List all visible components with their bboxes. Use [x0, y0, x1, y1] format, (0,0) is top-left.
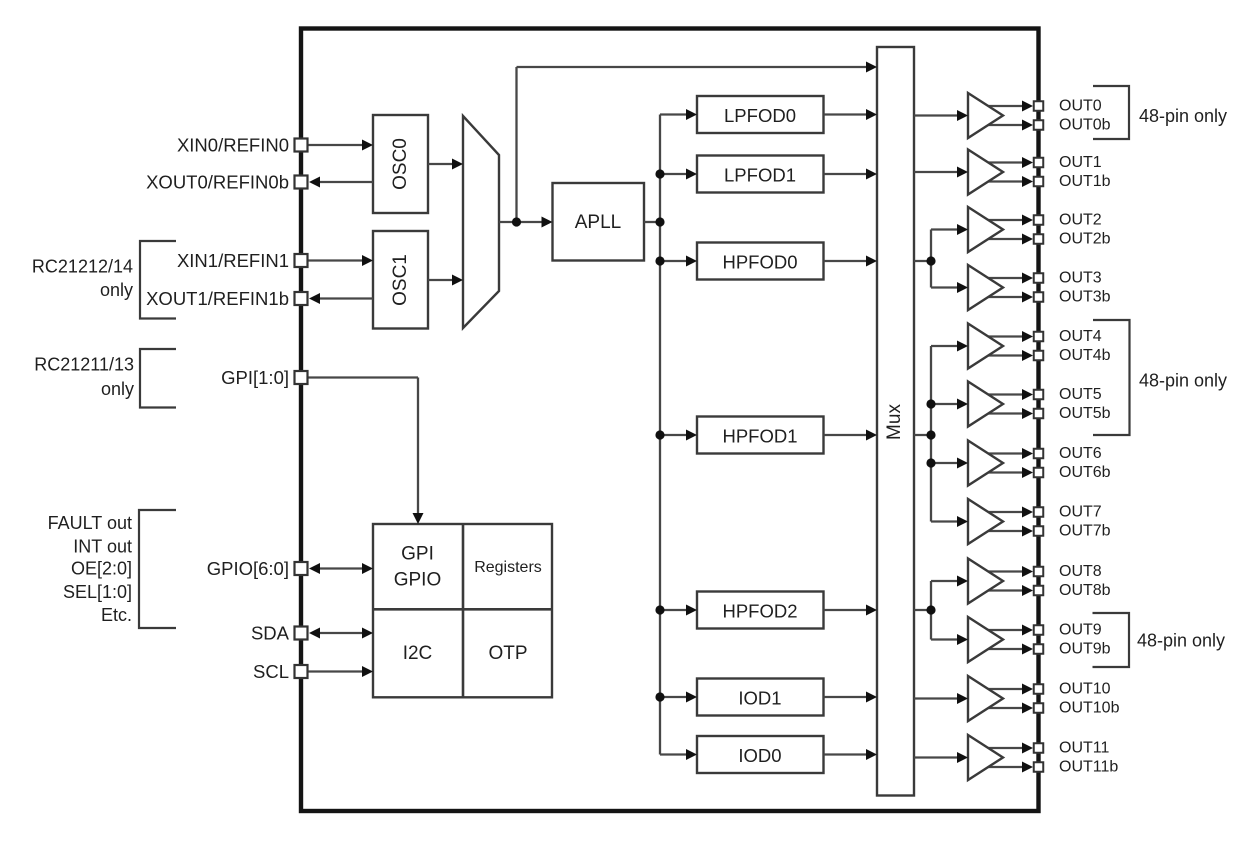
divider block HPFOD0: [697, 243, 824, 280]
svg-text:IOD1: IOD1: [738, 688, 781, 709]
output buffer U6 (OUT6): [968, 441, 1003, 486]
pin XOUT1/REFIN1b: [295, 292, 308, 305]
divider block LPFOD1: [697, 156, 824, 193]
wire branch vertical OUT4-OUT7: [930, 346, 932, 522]
junction bus-LPFOD1: [655, 169, 664, 178]
junction bus-IOD1: [655, 692, 664, 701]
output buffer U8 (OUT8): [968, 559, 1003, 604]
svg-text:OUT5: OUT5: [1059, 386, 1102, 403]
svg-text:XOUT1/REFIN1b: XOUT1/REFIN1b: [146, 288, 289, 309]
wire Mux out HPFOD2 branch: [914, 609, 931, 611]
oscillator OSC1: [373, 231, 428, 329]
wire buffer 8 to OUT8b pin: [985, 589, 1028, 591]
wire bus to LPFOD0: [660, 113, 692, 115]
svg-text:XOUT0/REFIN0b: XOUT0/REFIN0b: [146, 172, 289, 193]
svg-text:OUT11b: OUT11b: [1059, 759, 1118, 776]
arrow into LPFOD0: [686, 109, 697, 120]
arrow into buffer 1: [957, 167, 968, 178]
svg-text:GPIO[6:0]: GPIO[6:0]: [207, 558, 289, 579]
arrow into APLL: [542, 217, 553, 228]
arrow into buffer 9: [957, 634, 968, 645]
arrow OSC1 into trapezoid: [452, 275, 463, 286]
arrow into OUT5b pin: [1022, 408, 1033, 419]
wire bus to IOD0: [660, 753, 692, 755]
svg-text:OUT2b: OUT2b: [1059, 231, 1111, 248]
svg-text:SEL[1:0]: SEL[1:0]: [63, 582, 132, 602]
wire buffer 6 to OUT6 pin: [985, 452, 1028, 454]
svg-text:48-pin only: 48-pin only: [1139, 371, 1227, 391]
divider block HPFOD2: [697, 592, 824, 629]
arrow into OUT8b pin: [1022, 585, 1033, 596]
arrow into OUT7b pin: [1022, 526, 1033, 537]
pin OUT0b: [1034, 120, 1044, 130]
svg-text:OUT9b: OUT9b: [1059, 641, 1111, 658]
svg-text:OUT4: OUT4: [1059, 328, 1102, 345]
arrow into OUT9b pin: [1022, 644, 1033, 655]
arrow into OUT10 pin: [1022, 684, 1033, 695]
pin OUT1: [1034, 158, 1044, 168]
arrow into OSC0: [362, 140, 373, 151]
wire buffer 0 to OUT0 pin: [985, 105, 1028, 107]
oscillator OSC0: [373, 115, 428, 213]
bracket RC21212/14: [140, 241, 176, 319]
pin GPI[1:0]: [295, 371, 308, 384]
svg-text:I2C: I2C: [403, 643, 433, 664]
wire buffer 10 to OUT10 pin: [985, 688, 1028, 690]
svg-text:OUT9: OUT9: [1059, 622, 1102, 639]
arrow into IOD1: [686, 692, 697, 703]
svg-text:LPFOD0: LPFOD0: [724, 105, 796, 126]
svg-text:OSC0: OSC0: [390, 138, 411, 190]
arrow LPFOD1 into Mux: [866, 169, 877, 180]
wire buffer 11 to OUT11b pin: [985, 766, 1028, 768]
wire buffer 10 to OUT10b pin: [985, 707, 1028, 709]
wire HPFOD0 out to Mux: [824, 260, 869, 262]
arrow into OUT7 pin: [1022, 507, 1033, 518]
svg-text:XIN0/REFIN0: XIN0/REFIN0: [177, 135, 289, 156]
arrow into OUT2b pin: [1022, 234, 1033, 245]
wire XIN1 to OSC1: [308, 259, 367, 261]
pin GPIO[6:0]: [295, 562, 308, 575]
junction bus-APLL: [655, 217, 664, 226]
arrow into HPFOD2: [686, 605, 697, 616]
wire bus to IOD1: [660, 696, 692, 698]
wire LPFOD0 out to Mux: [824, 113, 869, 115]
svg-text:GPI: GPI: [401, 544, 434, 565]
wire buffer 9 to OUT9 pin: [985, 629, 1028, 631]
arrow bypass into Mux: [866, 62, 877, 73]
svg-text:OSC1: OSC1: [390, 254, 411, 306]
wire branch to OUT5 buffer: [931, 403, 963, 405]
wire Mux out row10: [914, 697, 963, 699]
arrow into OUT9 pin: [1022, 625, 1033, 636]
wire buffer 0 to OUT0b pin: [985, 124, 1028, 126]
pin OUT3: [1034, 273, 1044, 283]
wire branch to OUT6 buffer: [931, 462, 963, 464]
pin XIN1/REFIN1: [295, 254, 308, 267]
arrow into XOUT1 pin: [309, 293, 320, 304]
arrow IOD0 into Mux: [866, 749, 877, 760]
wire SDA bidirectional: [314, 632, 368, 634]
pin OUT2: [1034, 215, 1044, 225]
arrow into HPFOD0: [686, 256, 697, 267]
svg-text:OUT3b: OUT3b: [1059, 289, 1111, 306]
arrow into buffer 2: [957, 224, 968, 235]
arrow into HPFOD1: [686, 430, 697, 441]
wire OSC1 out to trapezoid: [428, 279, 458, 281]
wire buffer 4 to OUT4 pin: [985, 335, 1028, 337]
pin OUT9b: [1034, 644, 1044, 654]
wire branch vertical OUT8/OUT9: [930, 581, 932, 640]
svg-text:OE[2:0]: OE[2:0]: [71, 559, 132, 579]
output buffer U11 (OUT11): [968, 735, 1003, 780]
wire GPIO bidirectional: [314, 567, 368, 569]
wire XIN0 to OSC0: [308, 144, 367, 146]
junction bus-HPFOD0: [655, 256, 664, 265]
divider block IOD0: [697, 736, 824, 773]
divider block LPFOD0: [697, 96, 824, 133]
arrow into OUT11b pin: [1022, 762, 1033, 773]
wire buffer 5 to OUT5b pin: [985, 412, 1028, 414]
arrow into buffer 0: [957, 110, 968, 121]
svg-text:OUT7: OUT7: [1059, 504, 1102, 521]
svg-text:only: only: [101, 379, 134, 399]
svg-text:OUT2: OUT2: [1059, 212, 1102, 229]
svg-text:HPFOD0: HPFOD0: [722, 252, 797, 273]
svg-text:OUT1b: OUT1b: [1059, 173, 1111, 190]
svg-text:OTP: OTP: [488, 643, 527, 664]
wire bypass horizontal to Mux: [517, 66, 868, 68]
arrow GPIO into pin: [309, 563, 320, 574]
svg-text:48-pin only: 48-pin only: [1137, 631, 1225, 651]
junction bus-HPFOD2: [655, 605, 664, 614]
arrow into buffer 3: [957, 282, 968, 293]
wire IOD1 out to Mux: [824, 696, 869, 698]
svg-text:HPFOD1: HPFOD1: [722, 426, 797, 447]
svg-text:INT out: INT out: [73, 537, 132, 557]
svg-text:HPFOD2: HPFOD2: [722, 601, 797, 622]
wire OSC0 out to trapezoid: [428, 163, 458, 165]
arrow GPIO into block: [362, 563, 373, 574]
arrow into OUT8 pin: [1022, 566, 1033, 577]
arrow into OSC1: [362, 255, 373, 266]
wire bus to LPFOD1: [660, 173, 692, 175]
junction branch OUT4-7: [926, 430, 935, 439]
wire branch to OUT4 buffer: [931, 345, 963, 347]
svg-text:OUT7b: OUT7b: [1059, 523, 1111, 540]
arrow into OUT1 pin: [1022, 157, 1033, 168]
svg-text:OUT5b: OUT5b: [1059, 405, 1111, 422]
wire buffer 3 to OUT3b pin: [985, 296, 1028, 298]
wire bus to HPFOD2: [660, 609, 692, 611]
arrow into LPFOD1: [686, 169, 697, 180]
bracket FAULT/INT/OE/SEL: [139, 510, 176, 628]
wire branch to OUT8 buffer: [931, 580, 963, 582]
arrow HPFOD2 into Mux: [866, 605, 877, 616]
arrow into OUT6b pin: [1022, 467, 1033, 478]
pin SCL: [295, 665, 308, 678]
wire bypass vertical from node A: [515, 67, 517, 222]
wire HPFOD2 out to Mux: [824, 609, 869, 611]
pin OUT4: [1034, 332, 1044, 342]
svg-text:OUT0b: OUT0b: [1059, 117, 1111, 134]
svg-text:OUT10: OUT10: [1059, 681, 1111, 698]
wire branch to OUT7 buffer: [931, 520, 963, 522]
wire APLL out to bus: [644, 221, 660, 223]
wire Mux out row11: [914, 756, 963, 758]
svg-text:OUT8b: OUT8b: [1059, 582, 1111, 599]
bracket 48-pin OUT9: [1093, 613, 1130, 667]
arrow SDA into block: [362, 628, 373, 639]
wire GPI horizontal: [308, 376, 418, 378]
wire buffer 6 to OUT6b pin: [985, 471, 1028, 473]
junction branch OUT6: [926, 458, 935, 467]
arrow into OUT4b pin: [1022, 350, 1033, 361]
svg-text:OUT0: OUT0: [1059, 98, 1102, 115]
input mux trapezoid: [463, 116, 499, 328]
svg-text:SDA: SDA: [251, 623, 290, 644]
pin OUT1b: [1034, 177, 1044, 187]
svg-text:OUT10b: OUT10b: [1059, 700, 1120, 717]
wire buffer 2 to OUT2b pin: [985, 238, 1028, 240]
svg-text:OUT3: OUT3: [1059, 270, 1102, 287]
wire SCL to I2C: [308, 670, 367, 672]
wire clock bus vertical: [659, 115, 661, 755]
arrow HPFOD0 into Mux: [866, 256, 877, 267]
bracket 48-pin OUT4/5: [1093, 320, 1130, 435]
arrow into OUT10b pin: [1022, 703, 1033, 714]
junction bus-HPFOD1: [655, 430, 664, 439]
chip boundary (device outline): [301, 29, 1039, 812]
arrow into OUT5 pin: [1022, 389, 1033, 400]
pin XOUT0/REFIN0b: [295, 176, 308, 189]
junction branch OUT8/9: [926, 605, 935, 614]
svg-text:OUT6b: OUT6b: [1059, 464, 1111, 481]
bracket RC21211/13: [140, 349, 176, 408]
wire branch to OUT9 buffer: [931, 638, 963, 640]
arrow into OUT0 pin: [1022, 101, 1033, 112]
output buffer U7 (OUT7): [968, 499, 1003, 544]
arrow into OUT11 pin: [1022, 743, 1033, 754]
divider block IOD1: [697, 679, 824, 716]
wire buffer 4 to OUT4b pin: [985, 354, 1028, 356]
wire buffer 2 to OUT2 pin: [985, 219, 1028, 221]
arrow into OUT1b pin: [1022, 176, 1033, 187]
output buffer U0 (OUT0): [968, 93, 1003, 138]
wire Mux out HPFOD1 branch: [914, 434, 931, 436]
arrow into buffer 10: [957, 693, 968, 704]
pin OUT9: [1034, 625, 1044, 635]
svg-text:APLL: APLL: [575, 212, 621, 233]
wire branch vertical OUT2/OUT3: [930, 230, 932, 288]
wire Mux out HPFOD0 branch: [914, 260, 931, 262]
svg-text:OUT4b: OUT4b: [1059, 347, 1111, 364]
wire XOUT1 from OSC1: [315, 297, 373, 299]
wire buffer 5 to OUT5 pin: [985, 393, 1028, 395]
wire buffer 3 to OUT3 pin: [985, 277, 1028, 279]
pin XIN0/REFIN0: [295, 139, 308, 152]
bracket 48-pin OUT0: [1093, 86, 1129, 139]
arrow SDA into pin: [309, 628, 320, 639]
arrow into OUT0b pin: [1022, 120, 1033, 131]
arrow into buffer 7: [957, 516, 968, 527]
svg-text:OUT6: OUT6: [1059, 445, 1102, 462]
wire LPFOD1 out to Mux: [824, 173, 869, 175]
pin OUT5: [1034, 390, 1044, 400]
wire XOUT0 from OSC0: [315, 181, 373, 183]
wire buffer 1 to OUT1 pin: [985, 161, 1028, 163]
svg-text:SCL: SCL: [253, 661, 289, 682]
arrow IOD1 into Mux: [866, 692, 877, 703]
wire branch to OUT3 buffer: [931, 286, 963, 288]
svg-text:OUT1: OUT1: [1059, 154, 1102, 171]
wire IOD0 out to Mux: [824, 753, 869, 755]
output buffer U1 (OUT1): [968, 150, 1003, 195]
arrow into buffer 4: [957, 341, 968, 352]
pin OUT7: [1034, 507, 1044, 517]
wire HPFOD1 out to Mux: [824, 434, 869, 436]
pin OUT5b: [1034, 409, 1044, 419]
svg-text:GPI[1:0]: GPI[1:0]: [221, 367, 289, 388]
wire trapezoid out to APLL: [499, 221, 548, 223]
svg-text:Registers: Registers: [474, 559, 542, 576]
wire Mux out row1: [914, 171, 963, 173]
wire Mux out row0: [914, 114, 963, 116]
svg-text:OUT8: OUT8: [1059, 563, 1102, 580]
arrow into buffer 11: [957, 752, 968, 763]
arrow LPFOD0 into Mux: [866, 109, 877, 120]
arrow OSC0 into trapezoid: [452, 159, 463, 170]
output buffer U2 (OUT2): [968, 207, 1003, 252]
junction branch OUT5: [926, 399, 935, 408]
output mux block Mux: [877, 47, 914, 796]
arrow into buffer 5: [957, 399, 968, 410]
wire branch to OUT2 buffer: [931, 228, 963, 230]
arrow into IOD0: [686, 749, 697, 760]
arrow HPFOD1 into Mux: [866, 430, 877, 441]
control block grid (GPI/GPIO, Registers, I2C, OTP): [373, 524, 552, 697]
junction branch OUT2/3: [926, 256, 935, 265]
svg-text:Mux: Mux: [884, 404, 905, 440]
wire buffer 8 to OUT8 pin: [985, 570, 1028, 572]
arrow into OUT2 pin: [1022, 215, 1033, 226]
output buffer U9 (OUT9): [968, 617, 1003, 662]
node A junction (trapezoid output): [512, 217, 521, 226]
wire buffer 7 to OUT7b pin: [985, 530, 1028, 532]
arrow into buffer 6: [957, 458, 968, 469]
svg-text:FAULT out: FAULT out: [48, 513, 132, 533]
svg-text:only: only: [100, 280, 133, 300]
arrow into XOUT0 pin: [309, 177, 320, 188]
pin OUT8b: [1034, 586, 1044, 596]
wire GPI vertical to GPI/GPIO block: [417, 378, 419, 520]
svg-text:Etc.: Etc.: [101, 605, 132, 625]
arrow into OUT6 pin: [1022, 448, 1033, 459]
svg-text:XIN1/REFIN1: XIN1/REFIN1: [177, 250, 289, 271]
output buffer U3 (OUT3): [968, 265, 1003, 310]
svg-text:IOD0: IOD0: [738, 745, 781, 766]
arrow into OUT3b pin: [1022, 292, 1033, 303]
pin OUT4b: [1034, 351, 1044, 361]
svg-text:OUT11: OUT11: [1059, 740, 1109, 757]
pin SDA: [295, 627, 308, 640]
pin OUT11: [1034, 743, 1044, 753]
pin OUT10: [1034, 684, 1044, 694]
wire buffer 11 to OUT11 pin: [985, 747, 1028, 749]
pin OUT3b: [1034, 292, 1044, 302]
svg-text:RC21211/13: RC21211/13: [34, 355, 134, 375]
arrow into buffer 8: [957, 576, 968, 587]
wire buffer 7 to OUT7 pin: [985, 511, 1028, 513]
pin OUT7b: [1034, 526, 1044, 536]
arrow into OUT4 pin: [1022, 331, 1033, 342]
svg-text:LPFOD1: LPFOD1: [724, 165, 796, 186]
svg-text:48-pin only: 48-pin only: [1139, 106, 1227, 126]
svg-text:RC21212/14: RC21212/14: [32, 257, 133, 277]
arrow into OUT3 pin: [1022, 273, 1033, 284]
output buffer U10 (OUT10): [968, 676, 1003, 721]
pin OUT10b: [1034, 703, 1044, 713]
pin OUT6: [1034, 449, 1044, 459]
pin OUT2b: [1034, 234, 1044, 244]
arrow SCL into block: [362, 666, 373, 677]
arrow GPI into GPI/GPIO block: [413, 513, 424, 524]
pin OUT0: [1034, 101, 1044, 111]
output buffer U5 (OUT5): [968, 382, 1003, 427]
pin OUT8: [1034, 567, 1044, 577]
pin OUT6b: [1034, 468, 1044, 478]
output buffer U4 (OUT4): [968, 324, 1003, 369]
PLL block APLL: [553, 183, 645, 261]
wire buffer 1 to OUT1b pin: [985, 180, 1028, 182]
wire bus to HPFOD0: [660, 260, 692, 262]
divider block HPFOD1: [697, 417, 824, 454]
wire buffer 9 to OUT9b pin: [985, 648, 1028, 650]
pin OUT11b: [1034, 762, 1044, 772]
svg-text:GPIO: GPIO: [394, 570, 442, 591]
wire bus to HPFOD1: [660, 434, 692, 436]
